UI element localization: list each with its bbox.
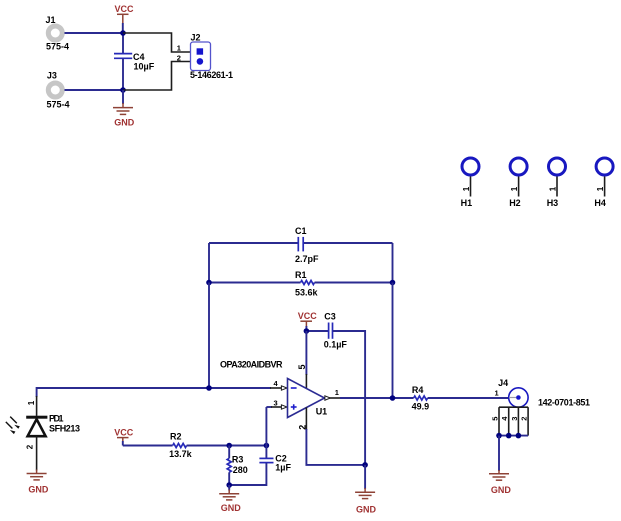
svg-text:5: 5 <box>297 364 307 369</box>
wire C1 rail left <box>209 242 298 244</box>
svg-text:1: 1 <box>510 186 519 191</box>
junction output/feedback <box>390 395 396 401</box>
mounting hole H2 <box>509 158 527 208</box>
svg-text:R2: R2 <box>170 431 182 441</box>
wire C1 rail right <box>304 242 393 244</box>
svg-text:3: 3 <box>274 399 278 408</box>
svg-text:10µF: 10µF <box>134 61 155 71</box>
photodiode PD1 <box>26 413 80 436</box>
svg-text:1: 1 <box>335 388 339 397</box>
svg-text:H3: H3 <box>547 198 559 208</box>
capacitor C3 <box>324 312 348 350</box>
resistor R3 <box>227 446 248 486</box>
wire VCC to R2 <box>122 441 124 446</box>
wire R2 node to C2 node <box>229 445 266 447</box>
svg-text:H2: H2 <box>509 198 521 208</box>
op-amp U1 <box>288 379 328 418</box>
resistor R2 <box>123 431 229 458</box>
mounting hole H3 <box>547 158 566 208</box>
resistor R4 <box>412 385 509 412</box>
light arrows PD1 <box>6 417 20 435</box>
wire J4 shield bus <box>499 435 528 437</box>
svg-text:1: 1 <box>495 388 499 397</box>
svg-text:1: 1 <box>462 186 471 191</box>
capacitor C1 <box>295 226 319 264</box>
mounting hole H1 <box>461 158 479 208</box>
svg-text:3: 3 <box>510 417 519 421</box>
power flag VCC left <box>114 428 134 442</box>
junction R2/R3 <box>226 443 232 449</box>
svg-text:13.7k: 13.7k <box>169 449 193 459</box>
wire J1 to node <box>65 32 124 34</box>
junction J4 pin3 <box>516 433 522 439</box>
wire VCC flag to node <box>122 23 124 33</box>
wire C4 node to ground <box>122 90 124 104</box>
svg-text:J1: J1 <box>46 15 56 25</box>
ground under PD1 <box>27 470 49 495</box>
pin arrow 1 (output) <box>325 396 330 400</box>
svg-text:0.1µF: 0.1µF <box>324 340 348 350</box>
svg-text:GND: GND <box>28 484 49 494</box>
svg-text:142-0701-851: 142-0701-851 <box>538 398 590 408</box>
junction R1 right <box>390 280 396 286</box>
svg-text:2: 2 <box>26 444 35 449</box>
junction node VCC top <box>120 30 126 36</box>
svg-text:280: 280 <box>233 465 248 475</box>
wire to ground (R3) <box>228 485 230 491</box>
svg-text:VCC: VCC <box>298 311 318 321</box>
connector J2 <box>190 33 233 80</box>
wire feedback right vertical down <box>392 283 394 399</box>
svg-text:C1: C1 <box>295 226 307 236</box>
wire feedback left vertical down <box>208 283 210 389</box>
junction node GND top <box>120 87 126 93</box>
junction R3/C2 bottom <box>226 482 232 488</box>
power flag VCC mid <box>298 311 318 327</box>
svg-text:49.9: 49.9 <box>412 402 430 412</box>
mounting hole H4 <box>594 158 613 208</box>
svg-text:VCC: VCC <box>114 428 134 438</box>
ground under J4 <box>489 470 511 495</box>
wire right vertical C1/R1 <box>392 243 394 283</box>
wire PD1 to ground <box>36 436 38 470</box>
wire pin5 vertical <box>305 331 307 375</box>
pin arrow 3 <box>281 405 287 409</box>
wire bottom node to J2 pin2 <box>123 62 191 91</box>
svg-text:R1: R1 <box>295 270 307 280</box>
svg-text:1: 1 <box>548 186 557 191</box>
junction J4 pin5 <box>496 433 502 439</box>
svg-text:H1: H1 <box>461 198 473 208</box>
svg-text:C4: C4 <box>133 52 145 62</box>
wire C3 right to vertical <box>333 331 365 465</box>
wire output to J4 <box>330 397 342 399</box>
svg-text:53.6k: 53.6k <box>295 288 319 298</box>
ground under U1 <box>355 488 376 514</box>
svg-text:R3: R3 <box>232 454 244 464</box>
wire C4 bottom to node <box>122 59 124 90</box>
svg-text:PD1: PD1 <box>49 413 64 423</box>
connector J1 <box>46 15 70 52</box>
junction C2/pin3 <box>264 443 270 449</box>
wire J4 shield to ground <box>498 436 500 471</box>
svg-text:1: 1 <box>27 400 36 405</box>
svg-text:GND: GND <box>221 503 242 513</box>
svg-text:C3: C3 <box>324 312 336 322</box>
svg-text:U1: U1 <box>316 406 328 416</box>
connector J3 <box>47 71 70 110</box>
svg-text:J2: J2 <box>191 33 201 43</box>
ground under C4 <box>113 103 135 128</box>
svg-text:GND: GND <box>491 485 512 495</box>
junction C3/pin2/gnd <box>362 462 368 468</box>
svg-text:R4: R4 <box>412 385 424 395</box>
pin arrow 4 <box>281 386 287 390</box>
svg-text:GND: GND <box>114 118 135 128</box>
svg-text:SFH213: SFH213 <box>49 423 80 433</box>
wire pin3 horizontal <box>266 406 272 408</box>
connector J4 (BNC) <box>495 378 591 407</box>
junction VCC/C3/pin5 <box>304 328 310 334</box>
wire PD1 to pin4 <box>37 388 271 397</box>
power flag VCC top <box>115 4 135 24</box>
wire node to C3 left <box>306 330 328 332</box>
wire pin2 vertical <box>305 407 307 430</box>
svg-text:2: 2 <box>177 53 181 62</box>
svg-text:J3: J3 <box>47 71 57 81</box>
wire C2 bottom to R3 bottom <box>229 463 266 485</box>
wire J3 to node <box>65 89 124 91</box>
svg-text:1: 1 <box>177 44 181 53</box>
svg-text:H4: H4 <box>594 198 606 208</box>
wire pin3 vertical <box>265 407 267 446</box>
wire left vertical C1/R1 <box>208 243 210 283</box>
wire VCC mid to node <box>305 326 307 331</box>
svg-text:GND: GND <box>356 504 377 514</box>
wire node to C4 top <box>122 33 124 53</box>
svg-text:OPA320AIDBVR: OPA320AIDBVR <box>220 359 283 369</box>
svg-text:2.7pF: 2.7pF <box>295 254 319 264</box>
svg-text:2: 2 <box>297 425 307 430</box>
svg-text:1: 1 <box>596 186 605 191</box>
junction J4 pin4 <box>506 433 512 439</box>
svg-text:575-4: 575-4 <box>47 100 70 110</box>
svg-text:VCC: VCC <box>115 4 135 14</box>
wire top node to J2 pin1 <box>123 33 191 52</box>
wire node to ground (U1) <box>364 465 366 489</box>
svg-text:575-4: 575-4 <box>46 42 69 52</box>
ground under R3 <box>219 490 241 513</box>
J4 shield pins 5,4,3,2 <box>491 407 529 435</box>
junction R1 left <box>206 280 212 286</box>
svg-text:5-146261-1: 5-146261-1 <box>190 70 233 80</box>
capacitor C2 <box>259 446 291 473</box>
junction feedback/pin4 <box>206 385 212 391</box>
svg-text:5: 5 <box>491 417 500 421</box>
svg-text:2: 2 <box>519 417 528 421</box>
resistor R1 <box>209 270 393 298</box>
svg-text:1µF: 1µF <box>275 463 291 473</box>
svg-text:J4: J4 <box>498 378 508 388</box>
capacitor C4 <box>114 52 155 72</box>
